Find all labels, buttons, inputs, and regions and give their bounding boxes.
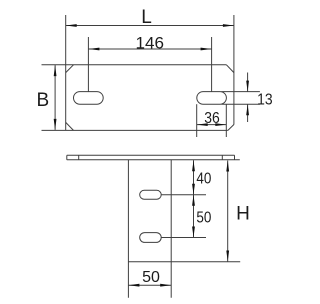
svg-text:L: L [141, 7, 152, 28]
svg-text:40: 40 [196, 171, 211, 188]
svg-text:36: 36 [204, 110, 220, 127]
svg-text:13: 13 [257, 91, 273, 108]
svg-text:50: 50 [196, 209, 211, 226]
svg-text:B: B [36, 90, 49, 111]
svg-text:H: H [236, 204, 250, 225]
svg-text:50: 50 [142, 269, 160, 286]
svg-text:146: 146 [136, 33, 165, 52]
